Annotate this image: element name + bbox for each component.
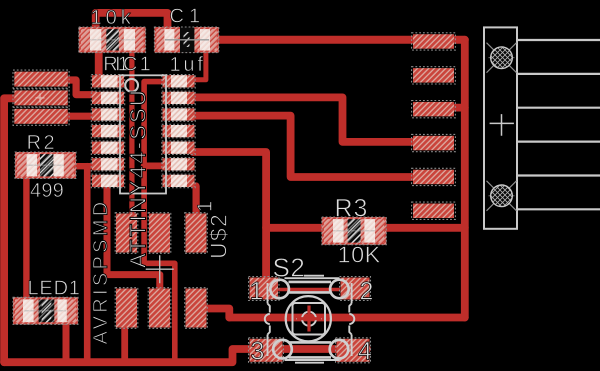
connector J1 pad 4: [412, 134, 456, 151]
svg-text:LED1: LED1: [28, 278, 81, 300]
S2 body graphics: [265, 276, 355, 363]
wire R3.2 to VCC vertical: [384, 224, 465, 232]
IC1 body outline: [120, 75, 166, 193]
svg-text:499: 499: [30, 180, 64, 202]
U$2 origin cross: [146, 255, 174, 283]
IC1 pin 11 pad: [162, 124, 195, 138]
wire U$2 pad4 down to rail: [121, 325, 128, 362]
svg-text:1uf: 1uf: [170, 54, 206, 76]
svg-text:10k: 10k: [91, 7, 135, 29]
wire VCC vertical right side: [461, 40, 469, 318]
resistor R1 package: [79, 27, 146, 53]
S2 center button circle: [286, 296, 331, 341]
S2 center red cross: [297, 306, 321, 332]
wire S2 pad3 to pad4 bridge: [252, 345, 367, 353]
svg-text:AVRISPSMD: AVRISPSMD: [90, 198, 112, 344]
capacitor C1 package: [154, 27, 218, 53]
IC1 pin 2 pad: [91, 91, 124, 105]
pushbutton S2: [249, 276, 371, 363]
IC1 pin 12 pad: [162, 108, 195, 122]
wire C1.2 to connector pad1 (VCC): [212, 36, 465, 44]
wire IC1 pin13 to connector pad4: [193, 97, 414, 141]
S2 pad 4: [336, 338, 371, 363]
wire R1.1 to C1.1 top loop: [96, 13, 168, 40]
resistor R3 package: [322, 217, 387, 245]
wire R1.2 down through IC1 body to U$2 pad1 (RST): [129, 40, 134, 218]
IC1 pin 6 pad: [91, 158, 124, 172]
S2 pad 3: [249, 338, 284, 363]
U$2 pad 1 (top col1): [115, 213, 138, 254]
wire C1.2 down-left to IC1 pin14: [193, 51, 206, 80]
S2 side tabs: [265, 314, 355, 324]
IC1 pin 8 pad: [162, 174, 195, 188]
IC1 pin 7 pad: [91, 174, 124, 188]
IC1 pin 13 pad: [162, 91, 195, 105]
solder jumper pad B: [13, 89, 69, 107]
U$2 pad bottom col2: [148, 288, 171, 329]
connector J1 hole top: [487, 43, 517, 73]
connector J1 origin cross: [490, 114, 514, 136]
LED LED1 package: [13, 297, 78, 324]
wire LED1.2 down to rail: [63, 322, 70, 362]
wire IC1 pin9 stub to VCC body vertical: [144, 162, 164, 169]
S2 ring pin 1: [270, 280, 289, 299]
IC1 pin 5 pad: [91, 141, 124, 155]
S2 small circle: [302, 312, 316, 326]
IC1 pin1 circle: [125, 79, 138, 92]
IC1 pin 4 pad: [91, 124, 124, 138]
svg-text:S2: S2: [273, 253, 306, 283]
resistor R2 package: [15, 152, 76, 179]
U$2 pad bottom col3: [185, 288, 208, 329]
wire R2.1 down to LED1.1: [23, 176, 29, 303]
svg-text:4: 4: [358, 338, 372, 366]
wire S2 pad1-pad2 thin bridge: [280, 288, 339, 291]
IC1 pin 14 pad: [162, 75, 195, 89]
solder jumper pad A: [13, 70, 69, 88]
connector J1 pad 2: [412, 67, 456, 84]
IC1 pin 3 pad: [91, 108, 124, 122]
S2 inner square: [293, 303, 326, 335]
svg-text:2: 2: [360, 278, 374, 306]
IC1 pin 9 pad: [162, 158, 195, 172]
wire IC1 pin8 to U$2 pad3: [193, 186, 200, 220]
wire U$2 pad6 jog to S2 middle: [204, 309, 229, 318]
connector J1 body: [484, 27, 600, 228]
wire stub connector pad3 to VCC vertical: [454, 104, 465, 112]
IC1 pin 1 pad: [91, 75, 124, 89]
connector J1 pad 3: [412, 101, 456, 118]
solder jumper pad C: [13, 107, 69, 125]
connector J1 pad 5: [412, 168, 456, 185]
IC1 pin 10 pad: [162, 141, 195, 155]
U$2 pad bottom col1: [115, 288, 138, 329]
svg-text:IC1: IC1: [115, 54, 153, 76]
S2 ring pin 3: [273, 340, 292, 359]
U$2 pad top col2: [148, 213, 171, 254]
U$2 pad top col3: [185, 213, 208, 254]
wire R2.2 to IC1 pin6: [74, 163, 94, 169]
wire jumper padB to left edge ground: [4, 98, 15, 362]
S2 ring pin 2: [330, 280, 349, 299]
S2 pad 1: [249, 277, 280, 301]
wire junction R2.2 down to rail: [84, 166, 91, 362]
wire jumper padA to IC1 pin2: [66, 80, 94, 95]
wire IC1 pin12 to connector pad5: [193, 116, 412, 177]
svg-text:R2: R2: [27, 132, 58, 154]
S2 ring pin 4: [330, 340, 349, 359]
connector J1 pin lines: [517, 40, 600, 209]
svg-text:U$2: U$2: [205, 213, 231, 259]
S2 top white lines: [289, 282, 332, 293]
wire branch to R3.1: [266, 224, 325, 232]
wire bottom ground rail: [4, 349, 258, 362]
svg-text:R3: R3: [335, 195, 369, 223]
connector J1 pad 6: [412, 202, 456, 219]
wire R1.1 down to IC1 pin1: [95, 40, 103, 78]
svg-text:C1: C1: [170, 6, 206, 28]
connector J1 hole bottom: [487, 181, 517, 211]
svg-text:ATTINY44-SSU: ATTINY44-SSU: [126, 88, 151, 268]
svg-text:1: 1: [250, 278, 264, 306]
S2 body outline: [268, 276, 352, 363]
connector J1 pad 1: [412, 33, 456, 50]
svg-text:3: 3: [251, 338, 265, 366]
wire IC1 pin7 to U$2 pad5: [107, 185, 160, 295]
wire S2 middle to VCC vertical: [229, 314, 464, 322]
wire IC1 pin10 to S2 pad1: [193, 152, 266, 283]
S2 bottom white lines: [289, 342, 332, 357]
svg-text:1: 1: [195, 201, 217, 212]
solder jumper pad B origin cross: [36, 93, 45, 102]
wire jumper padC to IC1 pin3: [66, 113, 94, 120]
wire VCC through IC1 body to bottom rail: [144, 82, 175, 362]
S2 pad 2: [340, 277, 371, 301]
svg-text:10K: 10K: [338, 242, 381, 268]
S2 center white crosshair: [297, 306, 322, 331]
